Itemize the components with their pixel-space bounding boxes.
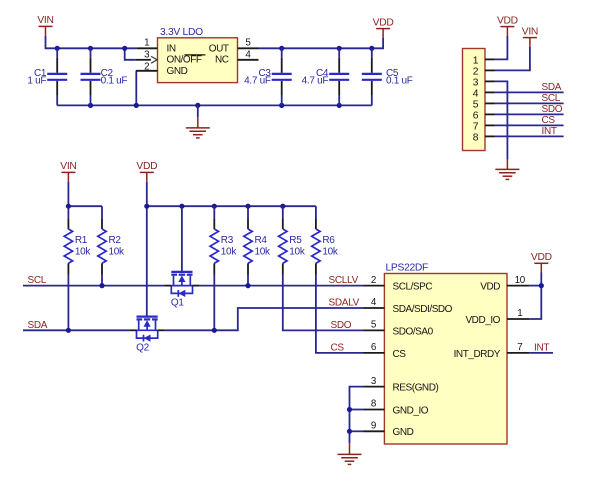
resistor R4 10k [244, 206, 271, 274]
power flag VDD connector [500, 27, 514, 36]
svg-text:GND: GND [167, 66, 188, 77]
ground symbol under chip [338, 444, 362, 464]
svg-text:1: 1 [144, 38, 149, 49]
svg-text:2: 2 [473, 66, 479, 77]
svg-text:1 uF: 1 uF [27, 76, 46, 87]
svg-text:3: 3 [144, 49, 150, 60]
svg-text:SDA/SDI/SDO: SDA/SDI/SDO [393, 304, 453, 315]
svg-text:R2: R2 [109, 235, 122, 246]
power flag VDD mid [140, 172, 154, 181]
chip pin 4 stub [364, 307, 385, 309]
svg-text:0.1 uF: 0.1 uF [386, 76, 413, 87]
svg-text:SDALV: SDALV [329, 297, 360, 308]
resistor R3 10k [210, 206, 237, 274]
svg-text:NC: NC [215, 55, 229, 66]
svg-text:8: 8 [473, 132, 479, 143]
svg-text:5: 5 [473, 99, 479, 110]
svg-text:Q1: Q1 [171, 297, 184, 308]
svg-text:10k: 10k [322, 246, 339, 257]
svg-text:1: 1 [473, 55, 479, 66]
wire branch to LDO ON/OFF pin3 [125, 48, 136, 60]
wire VDD flag down through rail to Q2 gate [146, 182, 148, 317]
svg-text:CS: CS [393, 349, 407, 360]
junction VIN rail / R1 [66, 204, 71, 209]
svg-text:10k: 10k [109, 246, 126, 257]
capacitor C5 0.1uF [362, 48, 413, 105]
svg-text:SCL/SPC: SCL/SPC [393, 282, 433, 293]
svg-text:9: 9 [371, 421, 376, 432]
junction C3 top [279, 46, 284, 51]
chip pin 2 stub [364, 285, 385, 287]
wire pin1 to VDD [495, 36, 508, 60]
svg-text:R4: R4 [255, 235, 268, 246]
svg-text:R3: R3 [221, 235, 234, 246]
wire VIN flag to rail [67, 182, 69, 207]
regulator U1 3.3V LDO [158, 38, 238, 83]
wire VDD pin to flag stem [530, 285, 542, 287]
junction R3 on SDALV segment [212, 328, 217, 333]
svg-text:INT: INT [542, 126, 557, 137]
wire VDD flag down to VDD_IO pin [530, 273, 542, 320]
junction Q1 gate tap [179, 204, 184, 209]
wire LDO OUT rail to VDD flag [259, 38, 384, 49]
junction ground symbol tap [195, 103, 200, 108]
svg-text:GND: GND [393, 427, 414, 438]
svg-text:2: 2 [371, 275, 376, 286]
svg-text:SDA: SDA [28, 320, 48, 331]
junction VDD rail tap [144, 204, 149, 209]
svg-text:SDO/SA0: SDO/SA0 [393, 326, 434, 337]
junction GND_IO join [347, 407, 352, 412]
wire pin wire to net label CS [495, 124, 564, 126]
svg-text:R6: R6 [322, 235, 335, 246]
svg-text:VIN: VIN [37, 15, 53, 26]
svg-text:INT_DRDY: INT_DRDY [454, 349, 501, 360]
ON/OFF overline [184, 54, 205, 56]
svg-text:R1: R1 [75, 235, 88, 246]
svg-text:RES(GND): RES(GND) [393, 383, 439, 394]
chip pin 8 stub [364, 409, 385, 411]
wire pin2 to VIN [495, 47, 530, 71]
wire VIN pullup rail [68, 205, 102, 207]
connector pin 7 stub [485, 124, 495, 126]
wire bottom ground rail [57, 104, 372, 106]
junction C3 bottom [279, 103, 284, 108]
svg-text:LPS22DF: LPS22DF [386, 262, 429, 273]
svg-text:10: 10 [515, 275, 526, 286]
wire GND to ground stem [350, 430, 364, 432]
svg-text:10k: 10k [255, 246, 272, 257]
junction ON/OFF branch [122, 46, 127, 51]
connector pin 4 stub [485, 91, 495, 93]
capacitor C1 1uF [27, 48, 67, 105]
power flag VIN top-left [39, 26, 53, 35]
svg-text:7: 7 [473, 121, 479, 132]
connector pin 1 stub [485, 58, 495, 60]
svg-text:VIN: VIN [522, 26, 538, 37]
svg-text:5: 5 [245, 38, 251, 49]
ground symbol under connector [495, 159, 519, 179]
resistor R1 10k [64, 206, 91, 274]
wire pin3 to ground [495, 81, 508, 159]
junction GND pin2 joins rail [134, 103, 139, 108]
svg-text:VDD: VDD [136, 161, 157, 172]
wire SDALV from Q2 up to chip [165, 308, 364, 330]
svg-text:CS: CS [542, 115, 556, 126]
chip pin 1 stub right [507, 318, 530, 320]
svg-text:6: 6 [473, 110, 479, 121]
svg-text:6: 6 [371, 342, 377, 353]
connector pin 6 stub [485, 113, 495, 115]
power flag VIN mid [61, 172, 75, 181]
svg-text:2: 2 [144, 61, 149, 72]
svg-text:VDD: VDD [373, 17, 394, 28]
wire stub down to ground symbol [197, 105, 199, 117]
junction C4 bottom [337, 103, 342, 108]
resistor R6 10k [312, 206, 339, 274]
wire pin wire to net label SCL [495, 102, 564, 104]
svg-text:Q2: Q2 [136, 343, 149, 354]
svg-text:SCL: SCL [542, 93, 561, 104]
svg-text:3.3V LDO: 3.3V LDO [160, 27, 203, 38]
svg-text:4: 4 [245, 49, 251, 60]
junction C1 top [55, 46, 60, 51]
wire pin wire to net label SDO [495, 113, 564, 115]
resistor R5 10k [279, 206, 306, 274]
wire GND_IO to ground stem [350, 409, 364, 411]
connector pin 2 stub [485, 69, 495, 71]
svg-text:3: 3 [371, 376, 377, 387]
LDO pin 2 GND stub [136, 70, 158, 72]
LDO pin 5 OUT stub [238, 47, 259, 49]
junction C2 bottom [88, 103, 93, 108]
svg-text:10k: 10k [221, 246, 238, 257]
junction R4 on SCLLV [245, 283, 250, 288]
svg-text:VDD: VDD [531, 252, 552, 263]
junction GND join [347, 429, 352, 434]
connector pin 3 stub [485, 80, 495, 82]
wire LDO GND pin2 down to ground rail [135, 71, 137, 106]
wire Q1 gate wire [181, 206, 183, 272]
power flag VIN connector [523, 38, 537, 47]
resistor R2 10k [98, 206, 125, 274]
junction C4 top [337, 46, 342, 51]
junction C2 top [88, 46, 93, 51]
wire SCLLV line from Q1 to chip [200, 285, 364, 287]
LDO pin 1 IN stub [136, 47, 157, 49]
svg-text:4: 4 [473, 88, 479, 99]
junction R5 top [280, 204, 285, 209]
wire SCL line from left [23, 285, 164, 287]
wire R3 to SDA-LV segment [213, 275, 215, 331]
capacitor C2 0.1uF [81, 48, 128, 105]
svg-text:10k: 10k [75, 246, 92, 257]
capacitor C4 4.7uF [302, 48, 350, 105]
wire VIN flag down + top-left rail to LDO pin1 [46, 36, 137, 49]
svg-text:GND_IO: GND_IO [393, 405, 429, 416]
svg-text:7: 7 [517, 342, 522, 353]
LDO pin 3 ON/OFF stub with input chevron [136, 59, 151, 61]
svg-text:VDD: VDD [480, 282, 500, 293]
capacitor C3 4.7uF [244, 48, 292, 105]
IC U2 LPS22DF [384, 274, 507, 445]
junction R4 top [245, 204, 250, 209]
wire VDD pullup rail [147, 205, 316, 207]
svg-text:SDA: SDA [542, 82, 562, 93]
LDO pin 4 NC stub [238, 59, 259, 61]
svg-text:SCLLV: SCLLV [329, 275, 359, 286]
chip pin 10 stub right [507, 285, 530, 287]
svg-text:8: 8 [371, 399, 377, 410]
wire INT_DRDY wire [530, 352, 553, 354]
svg-text:INT: INT [534, 342, 549, 353]
connector J1 8-pin header [463, 49, 486, 151]
wire pin wire to net label INT [495, 135, 564, 137]
ground symbol under LDO [186, 118, 210, 138]
junction R3 top [212, 204, 217, 209]
connector pin 5 stub [485, 102, 495, 104]
wire pin wire to net label SDA [495, 91, 564, 93]
junction C5 top [369, 46, 374, 51]
wire R2 to SCL [101, 275, 103, 286]
power flag VDD chip [534, 263, 548, 272]
svg-text:4: 4 [371, 297, 377, 308]
svg-text:4.7 uF: 4.7 uF [244, 76, 271, 87]
chip pin 3 stub [364, 386, 385, 388]
svg-text:1: 1 [517, 308, 522, 319]
junction VDD join [539, 283, 544, 288]
svg-text:SCL: SCL [28, 275, 47, 286]
wire R6 down and right: CS line [316, 275, 364, 353]
svg-text:SDO: SDO [542, 104, 563, 115]
chip pin 6 stub [364, 352, 385, 354]
svg-text:4.7 uF: 4.7 uF [302, 76, 329, 87]
svg-text:3: 3 [473, 77, 479, 88]
chip pin 9 stub [364, 430, 385, 432]
svg-text:0.1 uF: 0.1 uF [101, 76, 128, 87]
transistor Q2 (N-MOSFET) [129, 317, 165, 354]
wire R5 down and right: SDO line [283, 275, 364, 331]
svg-text:VIN: VIN [60, 161, 76, 172]
wire R1 to SDA [67, 275, 69, 331]
svg-text:OUT: OUT [209, 44, 229, 55]
chip pin 5 stub [364, 329, 385, 331]
transistor Q1 (N-MOSFET) [164, 272, 200, 309]
chip pin 7 stub right [507, 352, 530, 354]
wire SDA line from left [23, 329, 129, 331]
svg-text:VDD: VDD [497, 15, 518, 26]
svg-text:VDD_IO: VDD_IO [465, 315, 500, 326]
wire R4 to SCLLV [247, 275, 249, 286]
wire RES(GND) down to ground [350, 387, 364, 444]
power flag VDD top [376, 29, 390, 38]
svg-text:5: 5 [371, 320, 377, 331]
connector pin 8 stub [485, 135, 495, 137]
svg-text:IN: IN [167, 44, 176, 55]
svg-text:R5: R5 [289, 235, 302, 246]
svg-text:ON/OFF: ON/OFF [167, 55, 202, 66]
junction R1 on SDA [66, 328, 71, 333]
svg-text:10k: 10k [289, 246, 306, 257]
svg-text:CS: CS [331, 342, 345, 353]
svg-text:SDO: SDO [331, 320, 352, 331]
junction R2 on SCL [99, 283, 104, 288]
